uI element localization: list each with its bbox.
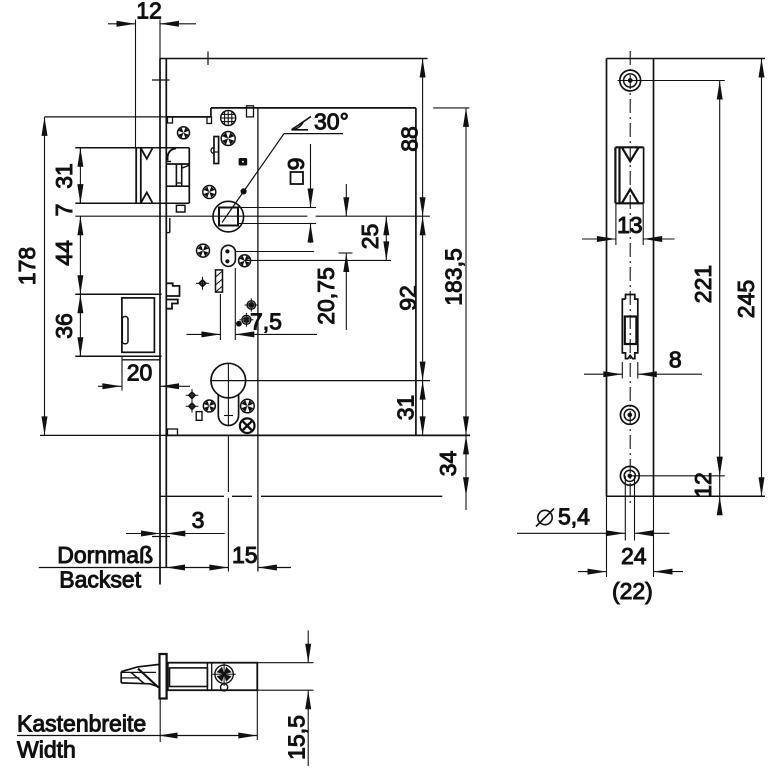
svg-text:7,5: 7,5 xyxy=(250,309,282,335)
svg-text:15: 15 xyxy=(232,542,258,568)
svg-text:13: 13 xyxy=(617,212,643,238)
svg-text:178: 178 xyxy=(14,247,40,285)
svg-text:5,4: 5,4 xyxy=(558,504,590,530)
svg-text:34: 34 xyxy=(435,451,461,477)
svg-text:3: 3 xyxy=(192,507,205,533)
svg-text:24: 24 xyxy=(621,543,647,569)
svg-text:92: 92 xyxy=(395,285,421,311)
svg-text:88: 88 xyxy=(397,126,423,152)
svg-text:20: 20 xyxy=(127,360,153,386)
svg-text:183,5: 183,5 xyxy=(441,248,467,306)
svg-text:30°: 30° xyxy=(314,109,349,135)
svg-text:(22): (22) xyxy=(612,578,653,604)
svg-text:31: 31 xyxy=(51,163,77,189)
svg-text:25: 25 xyxy=(357,224,383,250)
svg-text:36: 36 xyxy=(51,313,77,339)
svg-text:9: 9 xyxy=(283,158,309,171)
svg-text:Dornmaß: Dornmaß xyxy=(57,542,153,568)
svg-text:Backset: Backset xyxy=(59,567,141,593)
svg-text:15,5: 15,5 xyxy=(284,715,310,760)
svg-text:12: 12 xyxy=(690,472,716,498)
svg-text:245: 245 xyxy=(733,280,759,318)
svg-text:221: 221 xyxy=(690,265,716,303)
svg-text:20,75: 20,75 xyxy=(313,267,339,325)
svg-text:12: 12 xyxy=(136,0,162,24)
svg-text:Kastenbreite: Kastenbreite xyxy=(17,711,146,737)
svg-text:Width: Width xyxy=(17,737,76,763)
svg-text:7: 7 xyxy=(51,204,77,217)
svg-text:8: 8 xyxy=(669,347,682,373)
svg-text:31: 31 xyxy=(393,395,419,421)
svg-text:44: 44 xyxy=(51,240,77,266)
